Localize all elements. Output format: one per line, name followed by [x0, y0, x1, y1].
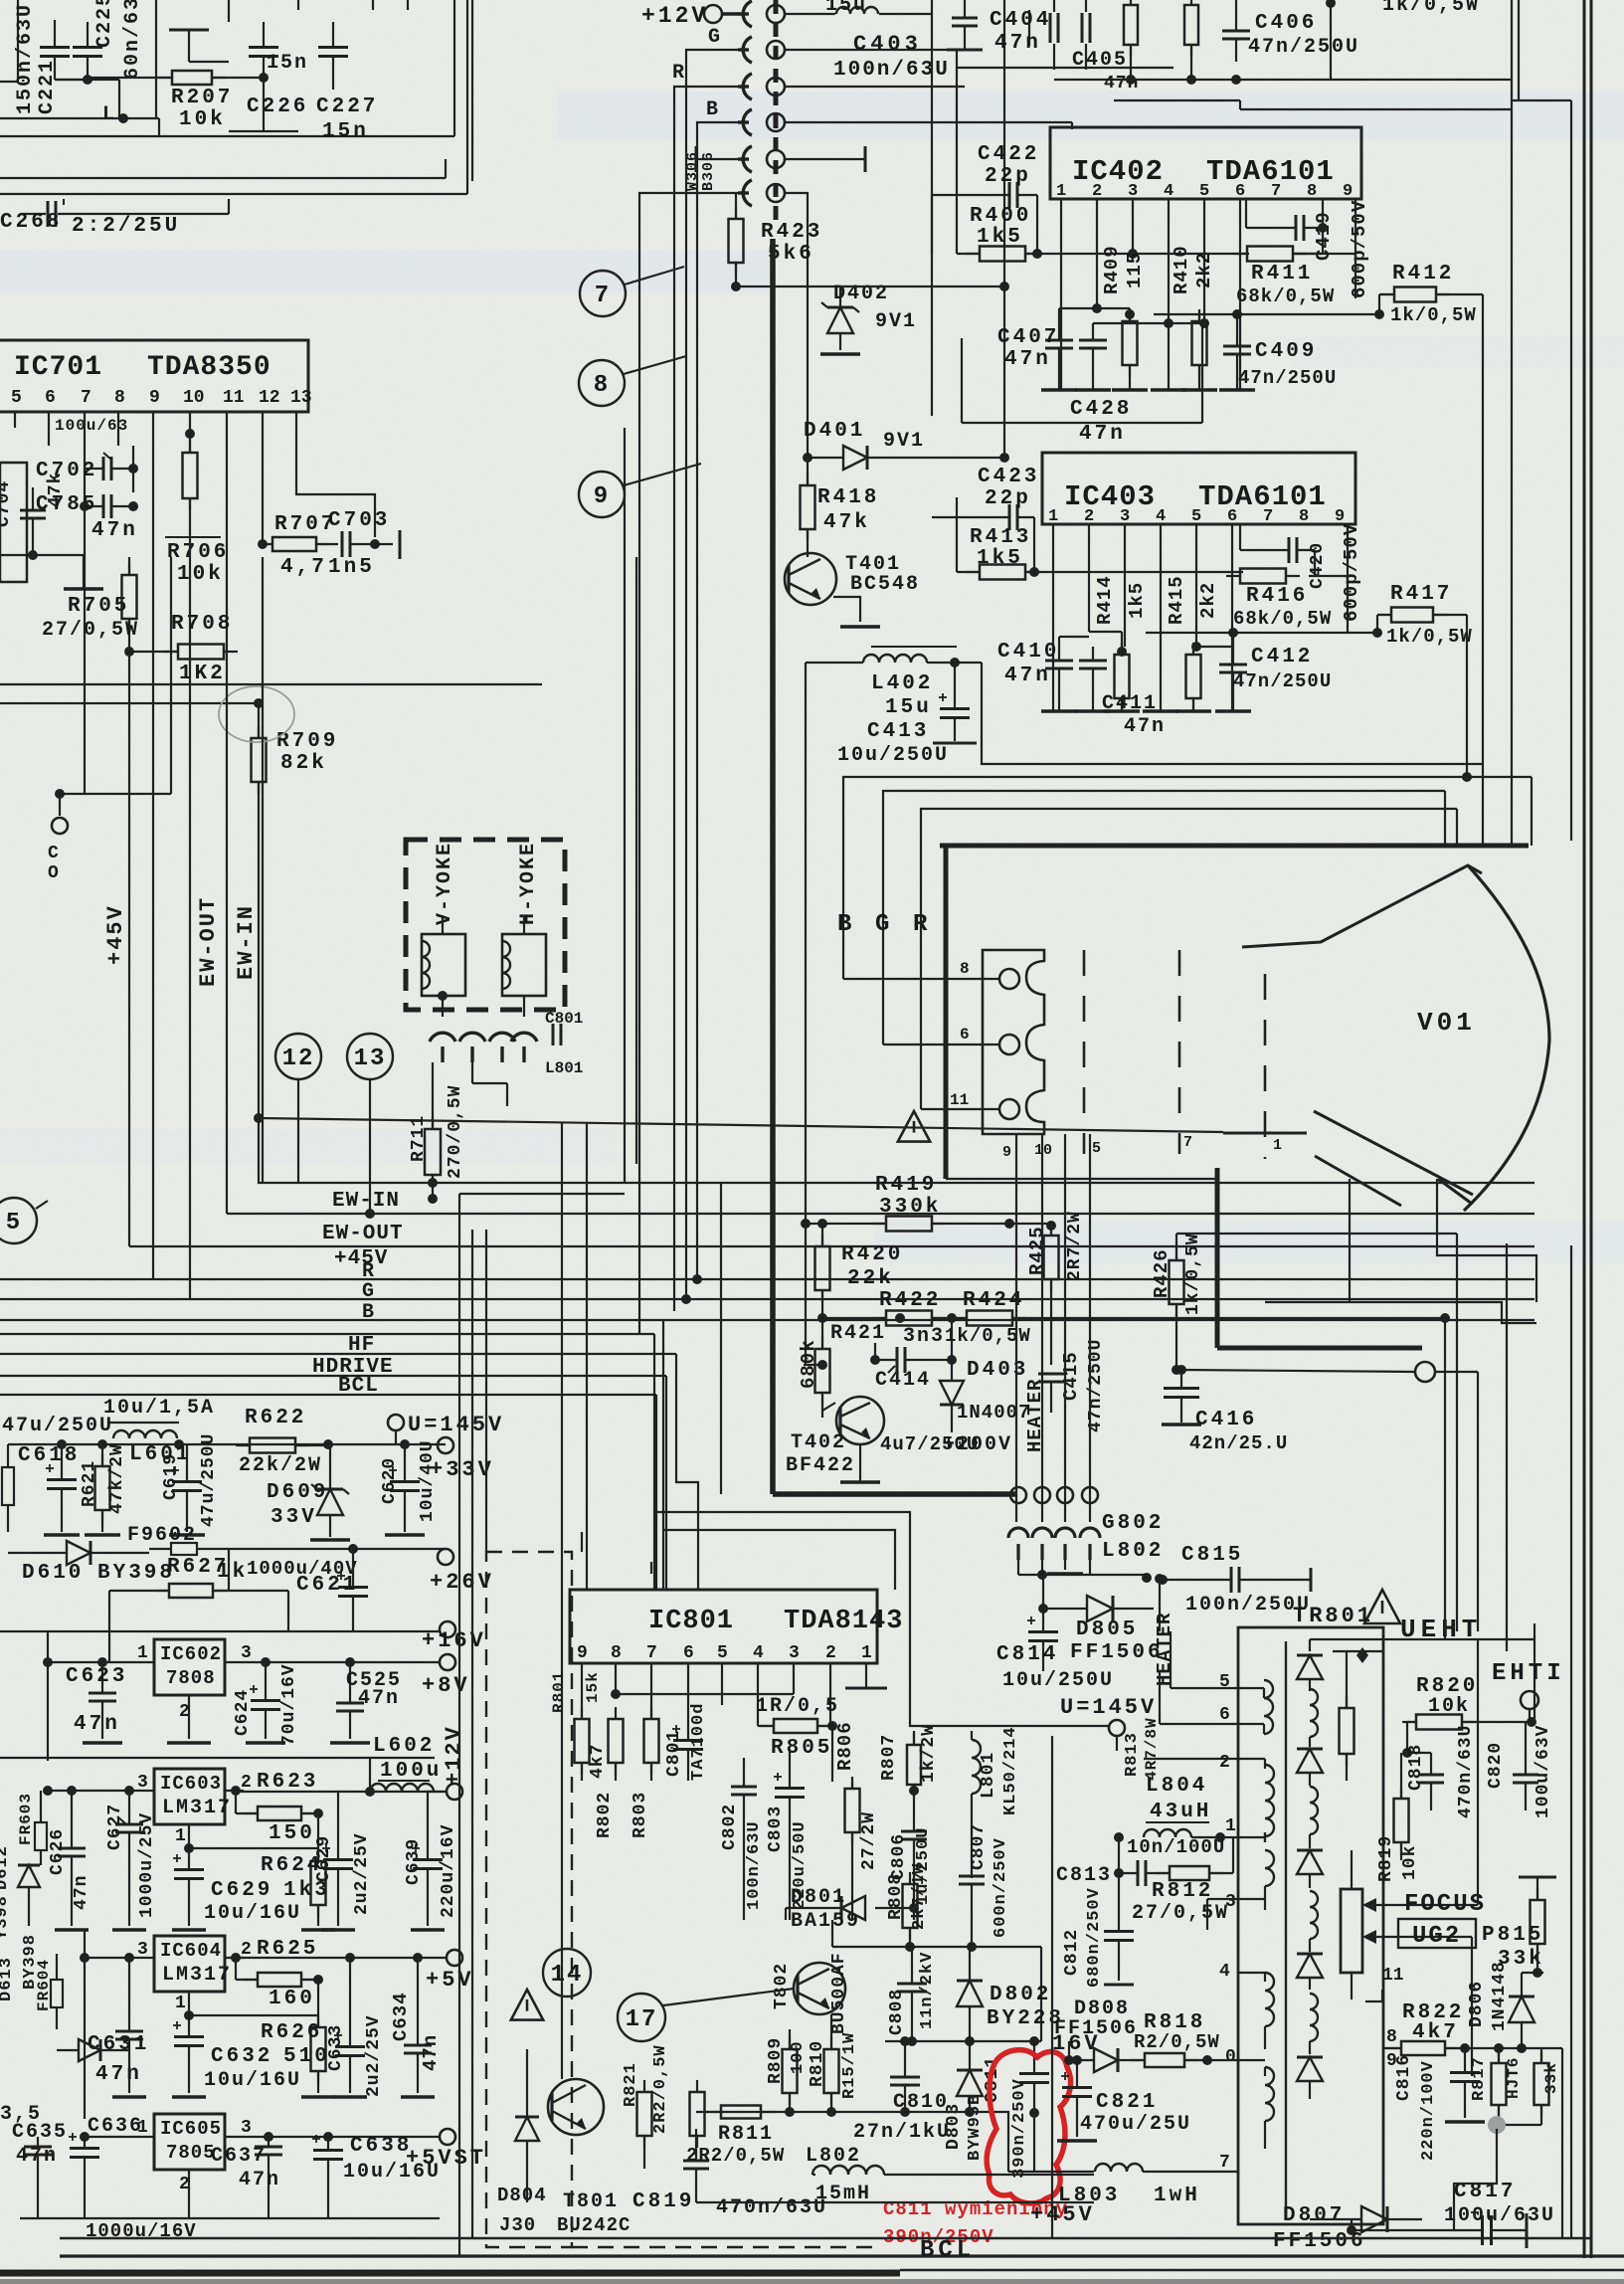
label IC402	[1072, 155, 1164, 188]
transistor T801	[548, 2079, 604, 2135]
capacitor C406	[1222, 0, 1250, 62]
label +12V	[641, 3, 708, 29]
wire b spacer	[0, 0, 1, 1]
node L	[102, 103, 116, 126]
pin 5 IC701	[11, 388, 22, 408]
label pin4	[1219, 1962, 1230, 1982]
wire 12V rail line	[0, 1757, 435, 1759]
connector yoke 3	[489, 1033, 515, 1062]
diode HV2	[1297, 1749, 1323, 1786]
dashed cable line	[774, 0, 779, 229]
wire x85 down	[84, 557, 86, 794]
label C629 v	[314, 1835, 334, 1882]
circle node 17	[618, 1994, 665, 2041]
label 4k7 R822	[1412, 2021, 1459, 2044]
label 22p	[985, 165, 1031, 188]
label R412	[1392, 263, 1454, 285]
wire T402 net	[804, 1360, 835, 1411]
diode D803	[957, 2041, 983, 2117]
label 160	[269, 1988, 315, 2010]
terminal +8V	[422, 1654, 470, 1698]
wire adj net 604	[184, 1980, 318, 2027]
label TDA8350	[147, 352, 271, 383]
wire pin8 net	[1318, 199, 1328, 239]
label C632	[211, 2045, 272, 2068]
label C407	[997, 326, 1059, 349]
wire mid outer frame	[625, 428, 636, 1184]
op-amp IC701 box	[0, 340, 308, 412]
wire funnel aux2	[1437, 1179, 1536, 1302]
wire pin1 left	[1220, 1832, 1265, 1842]
label 115	[1124, 252, 1146, 288]
pin 9 IC403	[1335, 507, 1345, 526]
capacitor C802	[731, 1758, 757, 1920]
circle node 14	[543, 1949, 591, 1997]
label D805	[1076, 1618, 1138, 1641]
resistor R807	[907, 1731, 921, 1797]
wire heater stub	[1016, 1134, 1090, 1522]
label HF bus	[348, 1334, 375, 1357]
label 1K2	[179, 663, 226, 685]
pin 4 IC403	[1156, 507, 1166, 526]
capacitor C820	[1513, 1722, 1538, 1810]
label C807 v	[969, 1823, 989, 1870]
diode D610	[8, 1541, 149, 1565]
label C405	[1072, 49, 1139, 94]
label EW-OUT vert	[196, 896, 221, 987]
elco C619	[171, 1444, 202, 1532]
CRT socket outline	[983, 950, 1044, 1134]
terminal +12V	[442, 1725, 466, 1800]
capacitor C419	[1246, 199, 1323, 241]
label 27n/1kV	[853, 2121, 951, 2144]
label 100n top	[55, 417, 128, 435]
transistor T401	[785, 553, 836, 605]
elco C639 sym	[412, 1792, 443, 1926]
pin 12 IC701	[259, 388, 280, 408]
capacitor C413	[933, 658, 977, 743]
label BCL bottom	[920, 2237, 975, 2264]
capacitor C801y	[545, 1010, 583, 1077]
label C410	[997, 641, 1059, 664]
label C404	[990, 9, 1051, 32]
label C620 v	[380, 1457, 400, 1504]
label pin3	[1225, 1892, 1236, 1912]
label R415	[1166, 575, 1187, 625]
label 68k/0,5W R416	[1233, 608, 1332, 630]
heater terminals	[1010, 1487, 1098, 1503]
coil L602	[365, 1784, 446, 1797]
wire left col pair	[485, 1230, 487, 1552]
label R806 v	[834, 1721, 856, 1771]
label R422	[879, 1289, 941, 1312]
coil TR801 w1	[1264, 1680, 1273, 1734]
diode D613	[57, 2039, 129, 2061]
circle node 12	[275, 1034, 321, 1079]
label KL50/214 v	[1001, 1726, 1020, 1815]
pin1 IC602	[137, 1643, 148, 1663]
label 4,7	[280, 556, 327, 579]
label socket pin1	[1273, 1137, 1282, 1154]
resistor R822 sym	[1382, 2041, 1562, 2238]
label C411	[1102, 692, 1158, 715]
coil TR801 w2	[1265, 1759, 1274, 1842]
label D802	[990, 1984, 1051, 2006]
label R708	[171, 613, 233, 636]
wire pin2 left	[1144, 1758, 1265, 1760]
label socket 11	[950, 1091, 969, 1109]
label C416	[1195, 1409, 1257, 1431]
resistor R709	[252, 703, 267, 1118]
capacitor C414	[870, 1343, 957, 1373]
wire right border outer	[1584, 0, 1591, 2258]
wire top right junction	[1054, 0, 1336, 85]
wire left spacer	[0, 0, 1, 1]
resistor R805	[758, 1719, 837, 1733]
pin2 IC602	[179, 1702, 190, 1722]
wire stair x680	[0, 1334, 698, 1590]
wire HF bus	[0, 1353, 676, 1355]
wire D402 right	[840, 282, 1009, 291]
label 10k	[179, 108, 226, 131]
wire stair x670	[665, 1376, 667, 1590]
pin2 IC604	[241, 1940, 252, 1960]
coil HV3	[1310, 1891, 1318, 1952]
wire R413 row	[957, 497, 1243, 577]
label L804	[1146, 1775, 1207, 1798]
wire funnel aux1	[1349, 1179, 1351, 1302]
elco C638	[312, 2135, 343, 2218]
label 15k v	[584, 1671, 602, 1703]
diode D808	[1064, 2041, 1144, 2072]
resistor R820	[1402, 1715, 1536, 1730]
wire vertical x157	[155, 0, 157, 118]
capacitor C626	[58, 1786, 86, 1926]
label R424	[963, 1289, 1024, 1312]
label D806 v	[1467, 1981, 1487, 2027]
label 47n C625	[358, 1687, 400, 1710]
capacitor C810	[890, 2041, 920, 2112]
label 42n/250V	[1189, 1432, 1288, 1454]
wire G row	[785, 50, 1173, 68]
resistor R817b	[1501, 2048, 1549, 2125]
wire long y1124	[259, 1118, 1223, 1132]
resistor R819	[1394, 1753, 1409, 1860]
resistor R705	[122, 557, 137, 652]
wire pin4 down IC402	[1169, 199, 1204, 390]
label C623	[66, 1665, 127, 1688]
label C412	[1251, 646, 1313, 668]
wire R820 left	[1402, 1722, 1412, 1758]
wire 17 diagonal	[663, 1989, 794, 2005]
wire IC701 pins down	[15, 412, 375, 652]
label 7808	[166, 1667, 216, 1689]
terminal +5VST	[406, 2129, 486, 2171]
label HDRIVE bus	[312, 1356, 394, 1379]
label R423	[761, 221, 822, 244]
label 15u L402	[885, 696, 932, 719]
CRT socket pin 11	[921, 950, 1019, 1119]
wire pin rows IC403 down	[1053, 524, 1232, 711]
wire G left	[681, 50, 749, 1304]
label R621 v	[80, 1460, 99, 1507]
wire focus net right	[1472, 1639, 1478, 2076]
resistor R426	[1170, 1234, 1184, 1375]
dashed box D804	[486, 1552, 878, 2247]
label C406	[1255, 12, 1317, 35]
wire R426 top	[1176, 1233, 1457, 1235]
resistor R400	[966, 247, 1039, 262]
label R410	[1171, 245, 1192, 294]
label +45V bus	[334, 1247, 388, 1270]
red circle C811	[987, 2050, 1070, 2203]
label D613 v	[0, 1957, 16, 2001]
label C806 v	[889, 1833, 909, 1880]
capacitor C225	[73, 22, 102, 80]
wire dashed box D804	[0, 0, 1, 1]
voltage regulator IC604 box	[154, 1936, 225, 1992]
label BU500AF v	[829, 1952, 849, 2034]
wire y707 line	[0, 698, 264, 708]
label 47n C634 v	[420, 2034, 442, 2071]
capacitor C411	[1079, 647, 1107, 711]
resistor R706	[183, 429, 198, 542]
wire top feed IC801	[582, 1532, 651, 1574]
label 3,5	[0, 2103, 42, 2126]
wire bottom bus 45	[696, 2175, 1094, 2202]
label 10u/16V C638	[343, 2161, 441, 2184]
label 1wH	[1154, 2185, 1200, 2207]
label 15n	[267, 52, 308, 75]
wire C423 left	[932, 516, 990, 518]
wire IC602 gnd	[167, 1695, 211, 1743]
wire 600p column 2	[1309, 524, 1348, 615]
label pin7	[1219, 2153, 1230, 2173]
label IC701	[14, 352, 102, 383]
label R622	[245, 1407, 306, 1429]
voltage regulator IC603 box	[154, 1769, 225, 1824]
label C802 v	[720, 1804, 740, 1850]
wire x191 down	[189, 542, 191, 1299]
elco C629 sym	[322, 1792, 353, 1926]
wire rail into regs	[109, 1591, 288, 1663]
capacitor C416	[1162, 1370, 1201, 1425]
label W802	[1102, 1540, 1164, 1563]
label G	[708, 26, 722, 49]
pin2 IC603	[241, 1773, 252, 1793]
capacitor C808	[897, 1947, 927, 2046]
wire y2140 row	[696, 2107, 1008, 2172]
wire R419 right net	[1009, 1223, 1051, 1225]
label 33V	[271, 1506, 317, 1529]
wire +12V to connector	[722, 7, 932, 14]
resistor R810	[824, 2014, 839, 2112]
label C635	[12, 2121, 68, 2144]
wire EW-OUT bus	[227, 1209, 1534, 1219]
label BY228	[987, 2007, 1064, 2030]
ground rail 603	[55, 1928, 445, 1932]
label L802	[806, 2145, 861, 2168]
label 100u/63V v	[1534, 1725, 1553, 1818]
label pin11	[1382, 1966, 1404, 1986]
label 1k5	[977, 226, 1023, 249]
capacitor C637	[255, 2137, 282, 2218]
label BY398 v	[21, 1934, 40, 1990]
label R808 v	[886, 1873, 906, 1920]
grey dot artifact	[1488, 2116, 1506, 2134]
resistor R419	[806, 1217, 1014, 1232]
wire nested line y830	[0, 0, 1, 1]
label D609	[267, 1481, 328, 1504]
junction under C225	[118, 113, 128, 123]
label 43uH	[1146, 1801, 1211, 1823]
label 600n/250V v	[992, 1837, 1010, 1938]
pin2 IC605	[179, 2175, 190, 2194]
diode HV4	[1297, 1954, 1323, 1990]
wire stair left pair	[562, 1122, 587, 2079]
label W306 v	[684, 151, 701, 191]
wire C422 left	[932, 195, 991, 254]
wire G802 net	[1018, 1560, 1152, 1583]
resistor R624	[311, 1849, 326, 1926]
pin 1 IC801	[861, 1643, 872, 1663]
resistor R626	[311, 2015, 326, 2093]
terminal +26V	[430, 1549, 494, 1595]
label C403	[853, 32, 922, 57]
label BU242C	[557, 2214, 631, 2236]
resistor R416	[1226, 569, 1300, 584]
pin 13 IC701	[290, 388, 312, 408]
label B306 v	[700, 151, 717, 191]
circle node 5	[0, 1198, 48, 1243]
capacitor C404	[1029, 0, 1058, 70]
diode HV5	[1297, 2057, 1323, 2099]
label C631	[88, 2033, 149, 2056]
label 10k R706	[177, 563, 224, 586]
red note line2	[883, 2226, 994, 2248]
label C628	[211, 1879, 272, 1902]
wire thick mid frame	[946, 1168, 1422, 1348]
pin 8 IC801	[611, 1643, 622, 1663]
label R409	[1101, 245, 1123, 294]
label 1N4148 v	[1490, 1961, 1510, 2031]
label C423	[978, 466, 1039, 488]
wire pin6 left	[1160, 1671, 1264, 1724]
label 16V	[1052, 2031, 1101, 2056]
capacitor C631	[115, 1953, 143, 2093]
connector yoke 4	[511, 1033, 537, 1062]
flyback TR801 box	[1238, 1627, 1383, 2224]
label FF1506 D807	[1273, 2230, 1366, 2253]
label 1000u/40V	[247, 1558, 358, 1580]
coil HV2	[1310, 1787, 1318, 1848]
coil L401 label	[825, 0, 867, 17]
wire nested line y795	[883, 791, 1445, 950]
elco C814 sym	[1027, 1609, 1058, 1671]
label IC604	[160, 1940, 222, 1962]
label R706	[165, 537, 229, 564]
elco C636	[69, 2133, 99, 2218]
coil TR801 w4	[1265, 1973, 1274, 2049]
label 510	[283, 2045, 330, 2068]
label R418	[817, 486, 879, 509]
terminal U=145V	[388, 1413, 504, 1444]
label V01	[1417, 1008, 1476, 1038]
op-amp IC403 box	[1042, 453, 1355, 524]
label D402	[833, 283, 889, 305]
label 2u2/25V v2	[364, 2014, 384, 2097]
pencil circle artifact	[219, 686, 294, 742]
pin 7 IC701	[81, 388, 91, 408]
resistor R622	[236, 1438, 328, 1453]
label R810 v	[808, 2040, 827, 2087]
label BYW95B v	[966, 2094, 985, 2161]
wire bottom border 2	[60, 2254, 1624, 2257]
warning triangle TR801	[1364, 1590, 1400, 1623]
label 47k R418	[823, 511, 870, 534]
wire R424 right	[1054, 1313, 1450, 1323]
wire R417 right	[1433, 615, 1472, 782]
wire T802 spacer	[0, 0, 1, 1]
connector pin row5	[738, 180, 785, 206]
ground bus IC402	[1041, 388, 1255, 392]
resistor R627	[109, 1584, 288, 1598]
wire G bus	[0, 1298, 1534, 1300]
circle node 9	[579, 464, 701, 517]
pin 3 IC801	[789, 1643, 800, 1663]
resistor R802	[609, 1707, 624, 1781]
pin 9 IC701	[149, 388, 160, 408]
label EW-IN vert	[234, 904, 259, 980]
resistor R711	[425, 1062, 441, 1204]
connector pin B	[738, 109, 785, 135]
diode D801	[841, 1896, 919, 1920]
label 60n/63V	[121, 0, 144, 80]
scan band 4	[0, 1130, 617, 1164]
wire thick drop x951	[944, 846, 949, 1179]
label R426 v	[1151, 1248, 1173, 1298]
wire T401 emitter gnd	[833, 597, 880, 627]
label UEHT	[1400, 1615, 1482, 1644]
coil L801	[972, 1731, 981, 1878]
ground bus IC403	[1041, 709, 1251, 713]
wire R400 row	[957, 68, 1249, 259]
label D808	[1074, 1998, 1130, 2020]
focus arrow 2	[1362, 1930, 1472, 1944]
label 22p C423	[985, 487, 1031, 510]
label C703	[328, 509, 390, 532]
label C627 v	[105, 1804, 125, 1850]
label C820 v	[1486, 1742, 1506, 1789]
label C226	[247, 95, 308, 118]
diode D401	[808, 446, 1009, 470]
capacitor C623	[83, 1657, 122, 1743]
CRT dashed electrode 3	[1264, 974, 1267, 1159]
resistor R418	[801, 453, 815, 557]
label C813	[1056, 1864, 1112, 1887]
wire thick bottom frame	[773, 239, 1016, 1494]
wire top mid vertical pair	[932, 0, 1004, 453]
resistor R818	[1131, 2053, 1265, 2067]
label 1k/0,5W v	[1183, 1233, 1203, 1315]
wire R row	[785, 86, 965, 88]
label R812	[1152, 1880, 1213, 1903]
resistor R801	[575, 1707, 590, 1781]
label J30	[499, 2214, 536, 2236]
label 1k/0,5W top	[1382, 0, 1480, 17]
label R624	[261, 1854, 322, 1877]
diode D403	[940, 1318, 964, 1432]
